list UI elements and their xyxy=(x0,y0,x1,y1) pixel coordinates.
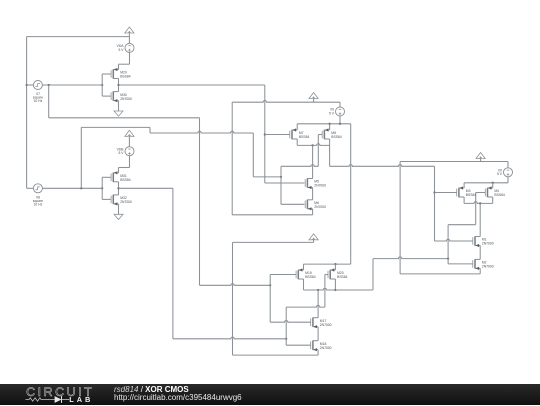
svg-text:BSS84: BSS84 xyxy=(305,275,316,279)
svg-text:LAB: LAB xyxy=(69,395,93,404)
svg-text:5 V: 5 V xyxy=(329,111,335,115)
svg-text:10 Hz: 10 Hz xyxy=(34,99,43,103)
svg-text:2N7000: 2N7000 xyxy=(120,97,132,101)
svg-text:BSS84: BSS84 xyxy=(466,193,477,197)
svg-text:BSS84: BSS84 xyxy=(331,135,342,139)
svg-text:BSS84: BSS84 xyxy=(120,178,131,182)
svg-text:BSS84: BSS84 xyxy=(494,193,505,197)
svg-text:5 V: 5 V xyxy=(118,151,124,155)
svg-text:2N7000: 2N7000 xyxy=(314,184,326,188)
svg-text:5 V: 5 V xyxy=(497,172,503,176)
svg-text:BSS84: BSS84 xyxy=(120,75,131,79)
svg-text:2N7000: 2N7000 xyxy=(320,323,332,327)
svg-text:BSS84: BSS84 xyxy=(299,135,310,139)
svg-text:BSS84: BSS84 xyxy=(337,275,348,279)
svg-text:2N7000: 2N7000 xyxy=(120,200,132,204)
svg-text:5 V: 5 V xyxy=(118,48,124,52)
svg-text:2N7000: 2N7000 xyxy=(314,205,326,209)
svg-text:2N7000: 2N7000 xyxy=(320,346,332,350)
svg-text:2N7000: 2N7000 xyxy=(482,265,494,269)
svg-text:2N7000: 2N7000 xyxy=(482,242,494,246)
svg-text:10 Hz: 10 Hz xyxy=(34,203,43,207)
